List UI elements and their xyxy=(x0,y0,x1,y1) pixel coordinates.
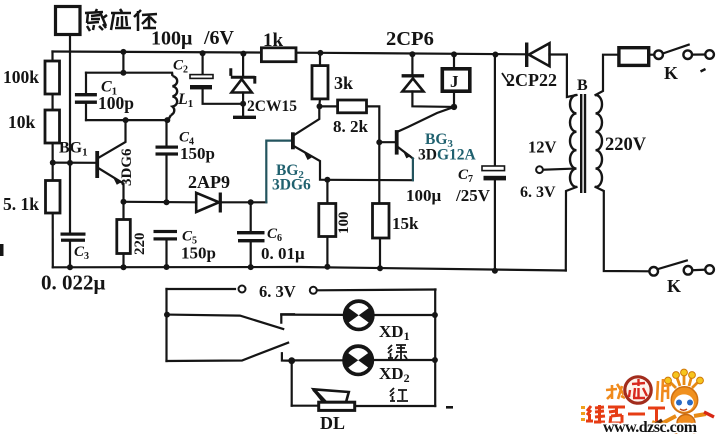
wire zener top lead xyxy=(242,54,244,76)
watermark dotted strip xyxy=(581,406,585,421)
wire zener bottom lead to ground bar xyxy=(242,93,244,117)
node relay coil / 2CP6 / BG3 collector xyxy=(451,104,457,110)
svg-text:0. 01μ: 0. 01μ xyxy=(261,244,305,263)
capacitor C5 150p plates xyxy=(154,230,178,233)
wire emitter node line to diode xyxy=(124,201,196,204)
sensor body box xyxy=(56,7,81,35)
terminal circle lamp 6.3V right xyxy=(310,287,317,294)
wire bell branch vertical xyxy=(291,361,293,406)
wire secondary bottom return xyxy=(566,187,577,271)
wire BG1 base line xyxy=(53,162,96,164)
node ground / R100 xyxy=(324,264,330,270)
chinese label red xyxy=(390,388,408,401)
svg-text:3DG6: 3DG6 xyxy=(119,148,135,186)
node top rail / 2CP6 xyxy=(409,51,415,57)
svg-text:8. 2k: 8. 2k xyxy=(333,117,369,136)
node ground / R220 xyxy=(121,264,127,270)
node top rail / 3k xyxy=(317,50,323,56)
transistor BG3 xyxy=(395,130,411,158)
switch K top terminals xyxy=(654,50,663,59)
wire top supply rail xyxy=(53,52,527,55)
wire BG1 emitter xyxy=(99,169,124,202)
wire R220 leads xyxy=(122,202,124,220)
svg-text:6. 3V: 6. 3V xyxy=(520,184,556,201)
svg-text:2CW15: 2CW15 xyxy=(247,98,297,115)
node lamp box right / XD1 xyxy=(432,312,438,318)
capacitor C1 100p plates xyxy=(75,93,97,96)
svg-text:L1: L1 xyxy=(177,91,193,110)
wire tank top xyxy=(86,72,172,74)
wire 6.3V tap xyxy=(543,169,574,170)
wire BG3 base xyxy=(379,141,395,143)
diode 2AP9 xyxy=(196,193,220,213)
wire XD1 left lead xyxy=(281,314,343,316)
wire lamp box right edge xyxy=(434,290,436,407)
watermark weikuyixia red text xyxy=(586,405,665,423)
wire bottom ground rail xyxy=(53,267,566,271)
wire load box to switch xyxy=(649,54,655,56)
relay contact 2 fixed bracket xyxy=(282,353,292,361)
wire C4 bottom lead xyxy=(165,156,167,203)
capacitor C4 150p plates xyxy=(156,146,179,149)
svg-text:XD1: XD1 xyxy=(379,322,410,343)
node BG3 base / 15k riser xyxy=(376,139,382,145)
svg-text:100: 100 xyxy=(336,212,352,235)
svg-text:5. 1k: 5. 1k xyxy=(3,194,39,214)
load box top right xyxy=(619,48,649,66)
watermark char zhao orange xyxy=(606,384,624,399)
stray slash before 2CP22 xyxy=(502,73,510,85)
watermark mascot xyxy=(648,369,714,434)
wire 3k leads xyxy=(319,53,321,66)
wire C1 leads xyxy=(85,73,87,94)
wire BG1 collector xyxy=(99,120,126,157)
node lamp box left / contact blade 1 xyxy=(164,312,170,318)
wire tank top riser xyxy=(122,52,124,73)
wire left bias rail vertical xyxy=(51,52,53,268)
relay contact 1 fixed bracket xyxy=(281,314,294,322)
node 2AP9 cathode / C6 / BG2 base xyxy=(248,199,254,205)
node C4 / C5 / diode 2AP9 xyxy=(164,199,170,205)
svg-text:15k: 15k xyxy=(392,214,419,233)
svg-text:2CP6: 2CP6 xyxy=(386,28,434,50)
terminal circle 6.3V tap xyxy=(536,166,543,173)
switch K bottom terminals xyxy=(649,267,658,276)
wire BG2 emitter xyxy=(295,147,328,180)
resistor R 100k xyxy=(45,61,60,94)
svg-text:C2: C2 xyxy=(173,58,188,76)
wire bell right lead xyxy=(355,405,436,407)
wire lamp box top left segment xyxy=(167,288,236,290)
wire sensor line from box to base node xyxy=(69,35,71,234)
switch K top blade xyxy=(663,45,689,54)
wire 100ohm leads xyxy=(326,180,328,204)
svg-text:0. 022μ: 0. 022μ xyxy=(41,271,106,295)
wire C6 leads xyxy=(250,202,252,231)
lamp XD2 xyxy=(344,346,372,374)
wire BG2 base riser xyxy=(266,141,291,203)
svg-text:2AP9: 2AP9 xyxy=(188,172,230,192)
resistor R 100 xyxy=(319,204,336,237)
wire top switch link xyxy=(692,53,705,55)
svg-text:C7: C7 xyxy=(458,167,473,185)
node top rail / tank riser xyxy=(120,49,126,55)
node tank bottom / C4 xyxy=(164,117,170,123)
svg-text:12V: 12V xyxy=(528,138,557,157)
stray mark left edge xyxy=(0,244,4,256)
wire 8.2k right lead and riser to BG3 base and 15k xyxy=(367,106,380,203)
node ground / C7 xyxy=(492,268,498,274)
wire bell left lead xyxy=(292,405,319,407)
wire C3 bottom lead xyxy=(69,242,71,268)
stray dash near lamp box xyxy=(446,406,453,409)
wire XD1 right lead xyxy=(374,314,435,316)
node lamp box right / XD2 xyxy=(432,357,438,363)
node BG1 emitter / R220 xyxy=(121,199,127,205)
wire C4 top lead xyxy=(165,120,167,145)
resistor R 15k xyxy=(373,204,390,239)
transformer B secondary winding xyxy=(570,95,577,187)
node ground / C3 xyxy=(67,264,73,270)
svg-text:10k: 10k xyxy=(8,112,36,132)
svg-text:1k: 1k xyxy=(263,30,284,51)
watermark char pian orange xyxy=(657,379,671,402)
wire C7 leads xyxy=(494,54,496,166)
transistor BG1 xyxy=(95,151,121,185)
zener 2CW15 xyxy=(231,68,255,92)
wire primary bottom lead xyxy=(596,187,650,271)
watermark magnifier with xin xyxy=(625,377,651,403)
wire common emitter line xyxy=(327,179,413,182)
wire lamp box top right segment xyxy=(317,288,436,291)
wire 15k bottom lead xyxy=(379,238,381,268)
node contact 2 / XD2 / bell DL xyxy=(288,357,295,364)
node zener anode / C2 xyxy=(240,101,246,107)
wire C2 top lead xyxy=(202,53,204,74)
svg-text:XD2: XD2 xyxy=(379,364,410,385)
wire 2CP6 leads xyxy=(411,54,413,74)
svg-text:www.dzsc.com: www.dzsc.com xyxy=(603,419,698,434)
switch K bottom blade xyxy=(658,261,687,270)
svg-text:100p: 100p xyxy=(98,93,134,113)
wire relay leads xyxy=(453,54,455,69)
resistor R 8.2k xyxy=(338,100,367,113)
node BG2 emitter / R100 xyxy=(324,177,330,183)
wire primary top lead xyxy=(596,55,619,95)
svg-text:3DG12A: 3DG12A xyxy=(418,147,477,164)
svg-text:C6: C6 xyxy=(267,226,282,244)
node 3k / 8.2k / BG2 collector xyxy=(317,103,323,109)
transformer B primary winding xyxy=(596,95,603,187)
svg-text:220: 220 xyxy=(132,233,148,256)
wire BG3 emitter xyxy=(399,148,413,159)
watermark dzsc logo group xyxy=(581,369,714,434)
wire C2 bottom lead to zener node xyxy=(203,90,244,104)
svg-text:DL: DL xyxy=(320,413,345,433)
svg-text:C3: C3 xyxy=(74,244,89,262)
capacitor C2 100u/6V plates xyxy=(190,75,213,79)
node sensor / C3 / BG1 base xyxy=(67,160,73,166)
relay J box xyxy=(442,69,470,91)
chinese label green xyxy=(388,345,407,360)
svg-text:/25V: /25V xyxy=(455,186,491,205)
wire rectifier output to transformer xyxy=(550,55,577,98)
bell DL xyxy=(314,389,355,410)
wire lamp box left edge xyxy=(165,289,167,361)
wire XD2 left lead xyxy=(292,359,342,361)
resistor R 1k xyxy=(261,48,296,62)
svg-text:K: K xyxy=(667,276,681,296)
capacitor C3 0.022u plates xyxy=(61,233,86,236)
wire C5 bottom lead xyxy=(165,241,167,268)
resistor R 5.1k xyxy=(46,181,61,214)
node top rail / relay J xyxy=(451,51,457,57)
svg-text:3DG6: 3DG6 xyxy=(272,177,311,194)
transistor BG2 xyxy=(291,132,312,160)
transformer B core xyxy=(581,94,585,193)
relay contact blade 2 xyxy=(167,343,289,361)
chinese label sensor body xyxy=(85,9,157,31)
wire tank bottom xyxy=(86,119,168,121)
inductor L1 winding xyxy=(168,73,177,120)
node ground / 15k xyxy=(377,265,383,271)
svg-text:100k: 100k xyxy=(3,67,39,87)
svg-text:150p: 150p xyxy=(180,144,215,163)
svg-text:K: K xyxy=(664,63,678,83)
stray tick near top K xyxy=(701,69,706,72)
svg-text:220V: 220V xyxy=(605,135,647,155)
node top rail / C2 xyxy=(200,50,206,56)
node tank top xyxy=(120,70,126,76)
wire BG3 collector to relay node xyxy=(399,107,455,131)
wire 8.2k left lead xyxy=(319,105,337,107)
svg-text:3k: 3k xyxy=(334,73,353,93)
wire bottom switch link xyxy=(692,269,705,272)
diode 2CP22 xyxy=(527,43,550,68)
svg-text:J: J xyxy=(450,72,459,91)
node ground / C5 xyxy=(164,264,170,270)
svg-text:6. 3V: 6. 3V xyxy=(259,282,296,301)
resistor R 220 xyxy=(117,220,131,254)
node top rail / C7 xyxy=(492,52,498,58)
svg-text:B: B xyxy=(577,77,588,94)
node bias divider / BG1 base xyxy=(50,160,56,166)
capacitor C7 100u/25V plates xyxy=(482,166,505,171)
node tank bottom / BG1 collector xyxy=(123,117,129,123)
svg-text:150p: 150p xyxy=(181,244,216,263)
capacitor C6 0.01u plates xyxy=(237,231,265,234)
relay contact blade 1 xyxy=(167,315,283,329)
node ground / C6 xyxy=(248,264,254,270)
resistor R 3k xyxy=(312,66,328,99)
node top rail / zener 2CW15 xyxy=(240,51,246,57)
terminal circle lamp 6.3V left xyxy=(239,286,246,293)
wire XD2 right lead xyxy=(374,359,435,361)
svg-text:2CP22: 2CP22 xyxy=(506,70,557,90)
diode 2CP6 xyxy=(402,76,425,92)
svg-text:100μ: 100μ xyxy=(406,186,442,205)
svg-text:BG1: BG1 xyxy=(59,140,88,159)
wire BG2 collector xyxy=(295,106,319,134)
resistor R 10k xyxy=(45,110,60,143)
svg-text:100μ: 100μ xyxy=(151,28,193,50)
ground bar for zener xyxy=(233,116,256,119)
lamp XD1 xyxy=(345,301,373,329)
svg-text:/6V: /6V xyxy=(203,27,235,49)
wire diode to BG2 base node xyxy=(221,201,267,203)
